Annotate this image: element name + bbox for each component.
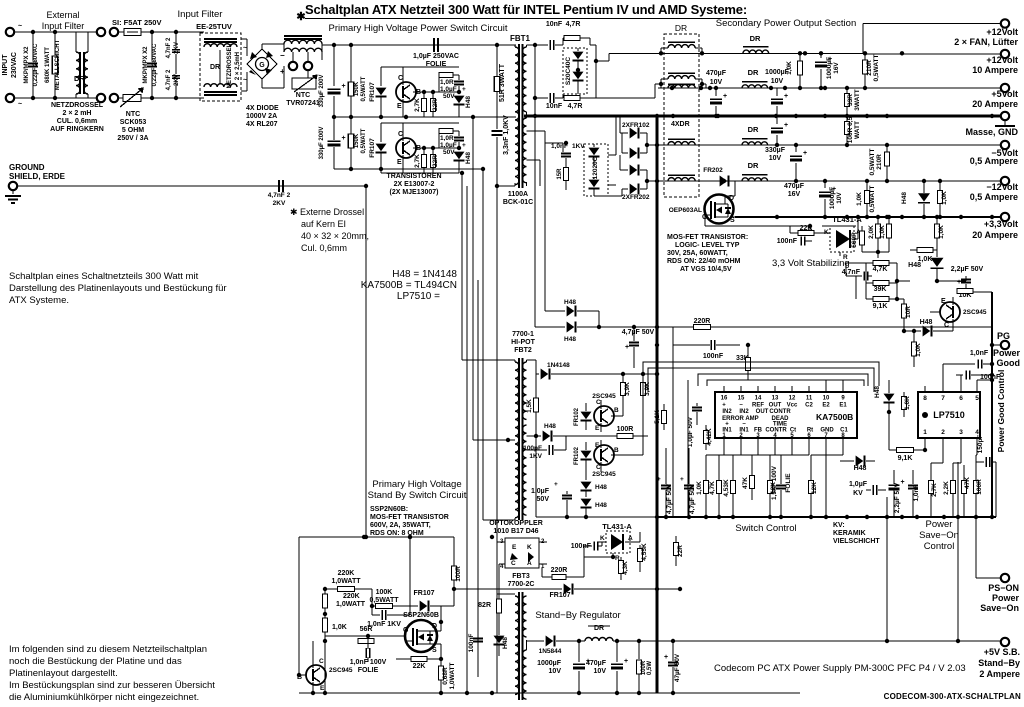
wire feedback from primary (534, 98, 536, 327)
svg-text:50V: 50V (443, 93, 455, 100)
svg-text:E: E (595, 442, 600, 449)
svg-text:+: + (625, 344, 629, 351)
svg-text:Power: Power (926, 519, 953, 530)
svg-text:+: + (462, 142, 466, 149)
svg-text:AUF RINGKERN: AUF RINGKERN (50, 126, 104, 133)
svg-text:33R: 33R (847, 94, 854, 106)
svg-text:0,22µF 280VAC: 0,22µF 280VAC (33, 43, 39, 86)
svg-text:~: ~ (243, 45, 247, 52)
output PG terminal (1001, 341, 1009, 349)
svg-text:TRANSISTOREN: TRANSISTOREN (386, 173, 441, 180)
output +12V 10A terminal (1001, 50, 1009, 58)
svg-text:−: − (280, 51, 285, 60)
svg-text:12K: 12K (811, 482, 818, 494)
svg-text:2,7K: 2,7K (931, 483, 938, 497)
svg-text:DR: DR (210, 64, 220, 71)
svg-text:10nF: 10nF (546, 103, 563, 110)
svg-text:+5V S.B.: +5V S.B. (984, 647, 1020, 657)
svg-text:230VAC: 230VAC (11, 52, 18, 78)
wire FBT3 taps (497, 593, 515, 595)
junction dots 3.3V area (856, 215, 860, 219)
wire driver top rail (566, 373, 657, 375)
svg-text:+: + (784, 122, 788, 129)
svg-text:C: C (596, 464, 601, 471)
resistor 2.7K (save-on) (929, 481, 934, 494)
svg-text:150K: 150K (354, 81, 360, 96)
svg-text:4,42K: 4,42K (706, 428, 713, 446)
svg-text:die Aluminiumkühlkörper nicht: die Aluminiumkühlkörper nicht eingezeich… (9, 692, 199, 702)
svg-text:2,7K: 2,7K (414, 98, 421, 112)
svg-text:1,0nF: 1,0nF (913, 484, 920, 501)
svg-text:150pF: 150pF (977, 435, 984, 454)
svg-text:1,0K: 1,0K (786, 61, 793, 75)
IC KA7500B (715, 392, 857, 438)
svg-text:16V: 16V (788, 191, 801, 198)
svg-text:NETZDROSSEL: NETZDROSSEL (227, 43, 233, 88)
svg-text:HI-POT: HI-POT (511, 339, 535, 346)
svg-text:2XFR102: 2XFR102 (622, 122, 650, 129)
svg-text:Vcc: Vcc (787, 403, 798, 409)
wire DC bottom to FBT1 (334, 168, 483, 170)
svg-text:FR107: FR107 (413, 590, 434, 597)
wire FBT1 sec top to snubber (527, 44, 536, 46)
wire feedback to switch control (599, 326, 657, 328)
wire -12V from choke to FR202 (702, 180, 718, 182)
transistor 2SC945 (standby) (306, 665, 326, 685)
resistors 3.9K 3.9K (driver collectors) (622, 375, 624, 382)
svg-text:Darstellung des Platinenlayout: Darstellung des Platinenlayouts und Best… (9, 283, 227, 294)
svg-text:OUT: OUT (769, 403, 782, 409)
capacitor 4.7uF 50V a (661, 485, 671, 487)
svg-text:K: K (527, 544, 532, 551)
svg-text:Good: Good (997, 358, 1021, 368)
wire -5V from choke (702, 144, 742, 146)
svg-text:+: + (341, 83, 345, 90)
svg-text:3,9K: 3,9K (624, 382, 631, 396)
svg-text:82R: 82R (478, 602, 491, 609)
capacitor 330uF 200V upper (328, 88, 341, 90)
wire DC mid rail (334, 116, 516, 118)
wire -12V rail (647, 180, 1001, 182)
wires LP7510 bottom pins (942, 448, 944, 463)
capacitor 470uF 10V (standby) (611, 663, 623, 665)
svg-text:KA7500B: KA7500B (816, 412, 853, 422)
svg-text:10V: 10V (836, 192, 843, 204)
svg-text:51R 3WATT: 51R 3WATT (499, 63, 506, 102)
svg-text:LP7510 =: LP7510 = (397, 291, 440, 302)
svg-text:1000µF: 1000µF (826, 57, 833, 79)
snubber resistor 4.7R bottom (564, 96, 580, 101)
svg-text:MOS-FET TRANSISTOR: MOS-FET TRANSISTOR (370, 514, 449, 521)
svg-text:50V: 50V (443, 149, 455, 156)
svg-text:CONTR: CONTR (769, 409, 791, 415)
svg-text:C: C (398, 75, 403, 82)
svg-text:1010 B17 D46: 1010 B17 D46 (493, 528, 538, 535)
resistor 4.7K row (717, 481, 722, 494)
resistor 22R (432, 148, 434, 155)
svg-text:4,7nF 2: 4,7nF 2 (166, 37, 172, 58)
svg-text:KA7500B = TL494CN: KA7500B = TL494CN (361, 280, 457, 291)
resistor 2.7K (423, 148, 425, 155)
transistor 2SC945 (PG) (940, 302, 960, 322)
svg-text:15: 15 (738, 396, 745, 402)
wire DC+ top rail (322, 44, 516, 46)
svg-text:20 Ampere: 20 Ampere (972, 230, 1018, 240)
svg-text:4,7nF 2: 4,7nF 2 (166, 69, 172, 90)
svg-text:4,7nF 2: 4,7nF 2 (268, 192, 291, 199)
capacitor 100nF (PG) (965, 371, 967, 380)
svg-text:LP7510: LP7510 (933, 410, 965, 420)
svg-text:H48: H48 (874, 386, 881, 398)
svg-text:Stand−By: Stand−By (978, 658, 1020, 668)
svg-text:FR102: FR102 (574, 407, 580, 426)
svg-text:K: K (600, 535, 605, 542)
svg-text:+: + (554, 481, 558, 488)
snubber capacitor 10nF bottom (549, 93, 551, 103)
resistor 100R (standby vert) (453, 559, 455, 566)
svg-text:C: C (511, 560, 516, 567)
svg-text:S: S (730, 217, 735, 224)
svg-text:210R: 210R (866, 60, 873, 76)
svg-text:1,5K: 1,5K (526, 399, 533, 413)
svg-text:4X RL207: 4X RL207 (246, 121, 278, 128)
svg-text:Masse, GND: Masse, GND (965, 127, 1018, 137)
svg-text:56R: 56R (360, 626, 373, 633)
bottom rail standby (299, 692, 800, 694)
wire loop around KA7500B (707, 380, 864, 386)
capacitor X2 MKP/MPX (32, 32, 34, 60)
svg-text:10R: 10R (905, 306, 912, 318)
wire Masse GND bus (thick) (524, 115, 1001, 118)
wire FBT2 left taps (514, 360, 516, 362)
svg-text:13: 13 (772, 396, 779, 402)
diode H48 (opto) (494, 636, 505, 644)
svg-text:0,5 Ampere: 0,5 Ampere (970, 156, 1018, 166)
svg-text:Stand By Switch Circuit: Stand By Switch Circuit (368, 490, 467, 501)
svg-text:OEP603AL: OEP603AL (669, 207, 702, 214)
svg-text:H48: H48 (564, 299, 576, 306)
svg-text:1,0K: 1,0K (941, 191, 948, 205)
svg-text:A: A (527, 560, 532, 567)
svg-text:47µF 50V: 47µF 50V (674, 653, 681, 682)
transformer FBT3 (518, 592, 520, 700)
svg-text:22R: 22R (432, 99, 439, 111)
resistor 1.0K (-12V clamp) (939, 181, 941, 190)
svg-text:4,7K: 4,7K (873, 266, 888, 273)
resistor 9.1K (873, 297, 889, 302)
svg-text:FR107: FR107 (369, 138, 376, 158)
svg-text:KV: KV (853, 490, 863, 497)
svg-text:1,0µF: 1,0µF (531, 488, 550, 495)
svg-text:3,3 Volt Stabilizing: 3,3 Volt Stabilizing (772, 258, 850, 269)
svg-text:S20C40C: S20C40C (565, 57, 572, 85)
svg-text:External: External (46, 10, 79, 20)
input terminal L (6, 28, 14, 36)
resistor 12K row a (768, 481, 773, 494)
svg-text:DR: DR (748, 125, 759, 134)
wire misc verticals mid (672, 327, 674, 345)
svg-text:S: S (432, 647, 437, 654)
bridge rectifier G (247, 49, 277, 79)
svg-text:+3,3Volt: +3,3Volt (984, 219, 1018, 229)
svg-text:Power Good Control: Power Good Control (996, 370, 1006, 453)
choke EE-25TUV DR (dashed box) (200, 33, 241, 101)
svg-text:−12Volt: −12Volt (986, 182, 1018, 192)
svg-text:C: C (944, 322, 949, 329)
svg-text:NTC: NTC (296, 92, 310, 99)
capacitor 100nF (opto) (473, 638, 483, 640)
svg-text:10V: 10V (549, 668, 562, 675)
svg-text:AMP: AMP (745, 416, 758, 422)
output Masse GND terminal (1001, 112, 1009, 120)
NTC SCK053 thermistor (118, 97, 124, 99)
svg-text:Power: Power (993, 348, 1021, 358)
capacitor 1uF 250VAC (433, 38, 435, 52)
wire input bottom (14, 97, 97, 99)
svg-text:2 × FAN, Lüfter: 2 × FAN, Lüfter (954, 37, 1018, 47)
wires KA7500B bottom pins (723, 438, 725, 448)
svg-text:✱: ✱ (296, 11, 305, 23)
svg-text:1,0K: 1,0K (879, 225, 886, 239)
output -5V terminal (1001, 141, 1009, 149)
svg-text:(2X MJE13007): (2X MJE13007) (389, 189, 438, 196)
svg-text:KERAMIK: KERAMIK (833, 530, 866, 537)
choke DR winding4 (-12V) (668, 174, 695, 176)
resistor 2.0K (877, 217, 879, 224)
wire drive vertical bundle (460, 171, 464, 175)
svg-text:Cul. 0,6mm: Cul. 0,6mm (301, 243, 347, 253)
svg-text:15R: 15R (557, 168, 563, 180)
output +5VSB terminal (1001, 638, 1009, 646)
svg-text:IN2: IN2 (722, 409, 732, 415)
svg-text:2SC945: 2SC945 (592, 471, 616, 478)
svg-text:MKP/MPX X2: MKP/MPX X2 (143, 46, 149, 84)
svg-text:330µF 200V: 330µF 200V (319, 75, 325, 108)
svg-text:220K: 220K (338, 570, 355, 577)
svg-text:2XFR202: 2XFR202 (622, 194, 650, 201)
resistor 22R (432, 92, 434, 99)
svg-text:7700-2C: 7700-2C (508, 581, 535, 588)
diodes H48 pair (driver emitters) (585, 468, 587, 480)
long vertical primary feed lines (466, 186, 468, 693)
MOSFET OEP603AL 3.3V (705, 195, 734, 224)
wire +5V rail (658, 87, 1001, 89)
svg-text:D: D (432, 623, 437, 630)
svg-text:MOS-FET TRANSISTOR:: MOS-FET TRANSISTOR: (667, 234, 748, 241)
wire left vertical from rect to +12V rail (608, 53, 610, 61)
svg-text:100nF: 100nF (703, 353, 724, 360)
svg-text:TL431-A: TL431-A (602, 522, 632, 531)
transistor E13007 (396, 82, 416, 102)
capacitor 2.2uF 50V (save-on) (889, 484, 900, 486)
svg-text:1,0R: 1,0R (440, 79, 454, 86)
snubber resistor 4.7R top (564, 36, 580, 41)
wire filter2 bottom (150, 97, 204, 99)
resistor 2.7K (423, 92, 425, 99)
transistor E13007 (396, 138, 416, 158)
svg-text:4,7µF 50V: 4,7µF 50V (622, 329, 655, 336)
capacitor 1.0nF (save-on) (908, 485, 918, 487)
svg-text:2KV: 2KV (273, 200, 286, 207)
capacitor 1000uF 16V (+12V) (820, 53, 822, 58)
vertical wires right of standby (886, 497, 888, 641)
resistor 210R 0.5WATT (+12V) (864, 53, 866, 60)
svg-text:7: 7 (941, 395, 945, 402)
svg-text:NTC: NTC (126, 111, 140, 118)
svg-text:2,2µF 50V: 2,2µF 50V (894, 482, 901, 513)
resistor 100R 0.5 WATT (GND to -5) (846, 116, 848, 122)
capacitor 4.7uF 50V b (684, 485, 694, 487)
svg-text:1,0K: 1,0K (856, 192, 863, 206)
svg-text:680K 1WATT: 680K 1WATT (45, 47, 51, 83)
svg-text:330µF: 330µF (765, 147, 786, 154)
svg-text:100K: 100K (376, 589, 393, 596)
svg-text:30V, 25A, 60WATT,: 30V, 25A, 60WATT, (667, 250, 728, 257)
svg-text:E: E (397, 159, 402, 166)
svg-text:+: + (462, 86, 466, 93)
capacitor Y 4.7nF lower (175, 65, 177, 74)
svg-text:1,0K: 1,0K (332, 624, 347, 631)
svg-text:9,1K: 9,1K (898, 455, 913, 462)
svg-text:Secondary Power Output Section: Secondary Power Output Section (716, 18, 856, 29)
svg-text:4X DIODE: 4X DIODE (246, 105, 279, 112)
svg-text:2KV: 2KV (174, 74, 180, 86)
resistor 47K (save-on) (962, 481, 967, 494)
wire standby top rail (299, 536, 454, 538)
svg-text:1,0µF 250VAC: 1,0µF 250VAC (413, 53, 459, 60)
svg-text:0,5WATT: 0,5WATT (869, 148, 876, 175)
resistor 33R 3WATT (+5 to GND) (846, 88, 848, 94)
resistor 100R 0.5W (standby) (638, 641, 640, 659)
svg-text:R: R (843, 254, 848, 261)
svg-text:CUL. 0,6mm: CUL. 0,6mm (57, 118, 97, 125)
svg-text:+: + (957, 279, 961, 286)
svg-text:RDS ON: 8 OHM: RDS ON: 8 OHM (370, 530, 424, 537)
resistor 51R 3WATT (496, 45, 498, 77)
svg-text:E: E (397, 103, 402, 110)
svg-text:PS−ON: PS−ON (988, 583, 1019, 593)
capacitor 1000uF 10V (+5V) (776, 88, 778, 96)
svg-text:4,7µF 50V: 4,7µF 50V (666, 483, 673, 514)
svg-text:2: 2 (941, 429, 945, 436)
svg-text:1100A: 1100A (508, 191, 528, 198)
capacitor 470uF 16V (-12V) (795, 145, 797, 152)
svg-text:Schaltplan eines Schaltnetztei: Schaltplan eines Schaltnetzteils 300 Wat… (9, 271, 199, 282)
wire bridge to choke (261, 44, 263, 49)
wire +5VSB junctions (885, 639, 889, 643)
svg-text:1,0nF 100V: 1,0nF 100V (350, 659, 387, 666)
svg-text:1,5nF 100V: 1,5nF 100V (771, 465, 778, 500)
svg-text:Input Filter: Input Filter (42, 21, 85, 31)
svg-text:F12020C: F12020C (592, 156, 599, 183)
resistor 12K row b (809, 481, 814, 494)
svg-text:auf Kern EI: auf Kern EI (301, 219, 346, 229)
svg-text:+: + (803, 150, 807, 157)
svg-text:+: + (664, 654, 668, 661)
svg-text:C: C (319, 658, 324, 665)
input terminal N (6, 94, 14, 102)
svg-text:7700-1: 7700-1 (512, 331, 534, 338)
svg-text:330µF 200V: 330µF 200V (319, 127, 325, 160)
svg-text:GROUND: GROUND (9, 163, 45, 172)
wires LP7510 top pins to caps (942, 364, 944, 386)
svg-text:1,0µF: 1,0µF (849, 481, 868, 488)
svg-text:FR107: FR107 (369, 82, 376, 102)
resistor 1.0K row (704, 481, 709, 494)
svg-text:C: C (596, 399, 601, 406)
wire FR102 outputs (647, 144, 657, 146)
wire MOSFET gate (325, 635, 406, 637)
svg-text:250V / 3A: 250V / 3A (117, 135, 148, 142)
svg-text:H48: H48 (465, 96, 472, 108)
svg-text:2,2K: 2,2K (943, 481, 950, 495)
svg-text:+: + (900, 479, 904, 486)
wire primary return vertical (496, 186, 498, 693)
svg-text:1000µF: 1000µF (537, 660, 562, 667)
svg-text:1,0nF: 1,0nF (970, 350, 989, 357)
output +12V fan terminal (1001, 19, 1009, 27)
choke box 4XDR (dashed) (664, 34, 699, 197)
diode FR107 (380, 123, 382, 142)
svg-text:DR: DR (748, 161, 759, 170)
svg-text:E: E (941, 298, 946, 305)
wire MOSFET source to 3.3V (731, 216, 735, 218)
resistor 1.0K 0.5WATT (-12V) (866, 181, 868, 190)
svg-text:FOLIE: FOLIE (785, 473, 792, 493)
wire -5V rail (647, 144, 1001, 146)
svg-text:DR: DR (748, 68, 759, 77)
svg-text:G: G (259, 62, 265, 69)
wire FBT1 sec lower taps (527, 130, 546, 132)
svg-text:47K: 47K (964, 477, 971, 489)
svg-text:2SC945: 2SC945 (963, 309, 987, 316)
wire +12V fan rail (863, 23, 1001, 25)
svg-text:SI: F5AT 250V: SI: F5AT 250V (112, 18, 161, 27)
svg-text:AT VGS 10/4,5V: AT VGS 10/4,5V (680, 266, 732, 273)
svg-text:Schaltplan ATX Netzteil 300 Wa: Schaltplan ATX Netzteil 300 Watt für INT… (305, 2, 747, 17)
svg-text:E: E (595, 425, 600, 432)
secondary rect resistor 15R (564, 168, 569, 181)
wires KA7500B top pins (723, 386, 725, 392)
svg-text:470µF: 470µF (784, 183, 805, 190)
svg-text:0,68R: 0,68R (442, 667, 449, 685)
svg-text:C: C (398, 131, 403, 138)
svg-text:Save−On: Save−On (919, 530, 959, 541)
svg-text:0,22µF 280VAC: 0,22µF 280VAC (152, 43, 158, 86)
svg-text:47K: 47K (742, 477, 749, 489)
wire MOSFET source down (428, 643, 441, 645)
svg-text:1,0K: 1,0K (938, 225, 945, 239)
svg-text:H48: H48 (901, 192, 908, 204)
svg-text:20 Ampere: 20 Ampere (972, 99, 1018, 109)
resistor 0.68R 1.0WATT (440, 659, 442, 666)
resistor 10R (903, 299, 905, 304)
output +3.3V terminal (1001, 213, 1009, 221)
svg-text:H48: H48 (465, 152, 472, 164)
svg-text:14: 14 (755, 396, 762, 402)
svg-text:0,5W: 0,5W (647, 661, 653, 675)
svg-text:OPTOKOPPLER: OPTOKOPPLER (489, 520, 543, 527)
svg-text:FBT2: FBT2 (514, 347, 532, 354)
svg-text:IN2: IN2 (739, 409, 749, 415)
svg-text:B: B (614, 407, 619, 414)
svg-text:0,5WATT: 0,5WATT (869, 185, 876, 212)
svg-text:2KV: 2KV (174, 42, 180, 54)
svg-text:2X E13007-2: 2X E13007-2 (394, 181, 435, 188)
svg-text:150K: 150K (354, 133, 360, 148)
resistor 1.0R (438, 75, 440, 92)
svg-text:C2: C2 (805, 403, 813, 409)
